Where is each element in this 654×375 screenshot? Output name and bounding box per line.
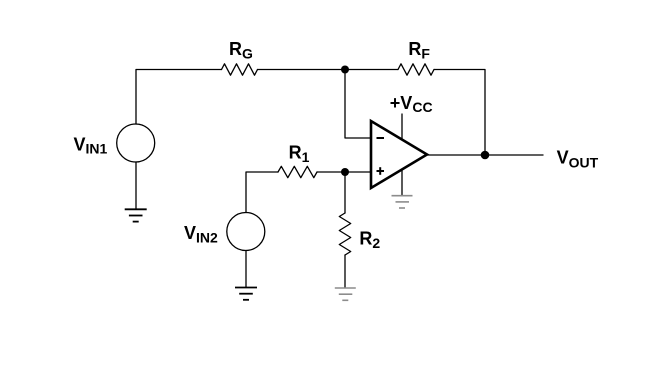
wire node B down to R2 — [344, 172, 346, 213]
svg-text:VIN2: VIN2 — [184, 223, 218, 245]
ground under VIN2 — [235, 288, 257, 300]
wire +VCC stem — [401, 114, 403, 140]
output node junction dot — [481, 151, 490, 160]
source VIN1 circle — [117, 124, 155, 162]
resistor R1 — [278, 166, 317, 177]
svg-text:VIN1: VIN1 — [74, 134, 108, 156]
wire op-amp ground stem — [401, 170, 403, 196]
wire output to VOUT — [427, 154, 543, 156]
wire RF to right corner down to output node — [434, 70, 485, 156]
ground under VIN1 — [125, 209, 147, 221]
svg-text:R1: R1 — [289, 142, 310, 165]
svg-text:RG: RG — [229, 39, 253, 62]
svg-text:VOUT: VOUT — [557, 148, 599, 171]
ground under R2 — [335, 288, 356, 300]
source VIN2 circle — [227, 213, 265, 251]
resistor RF — [398, 64, 434, 75]
wire VIN2 up and to R1 — [246, 172, 278, 213]
wire node A down to inverting input — [345, 70, 370, 139]
op-amp minus sign — [377, 137, 385, 139]
svg-text:+VCC: +VCC — [390, 93, 433, 115]
wire RG to node A and to RF — [258, 69, 399, 71]
ground under op-amp — [392, 196, 413, 208]
op-amp U1 triangle — [371, 121, 427, 188]
wire R1 to node B to non-inverting input — [317, 171, 370, 173]
svg-text:R2: R2 — [359, 228, 380, 251]
resistor RG — [222, 64, 258, 75]
wire top left from VIN1 to RG — [136, 70, 222, 125]
node B junction dot — [341, 168, 349, 176]
op-amp plus sign — [377, 167, 385, 175]
node A junction dot — [341, 66, 349, 74]
wire VIN1 bottom stem — [135, 162, 137, 209]
wire VIN2 bottom stem — [245, 251, 247, 288]
resistor R2 — [339, 213, 350, 255]
svg-text:RF: RF — [408, 39, 430, 62]
wire R2 bottom stem — [344, 255, 346, 288]
